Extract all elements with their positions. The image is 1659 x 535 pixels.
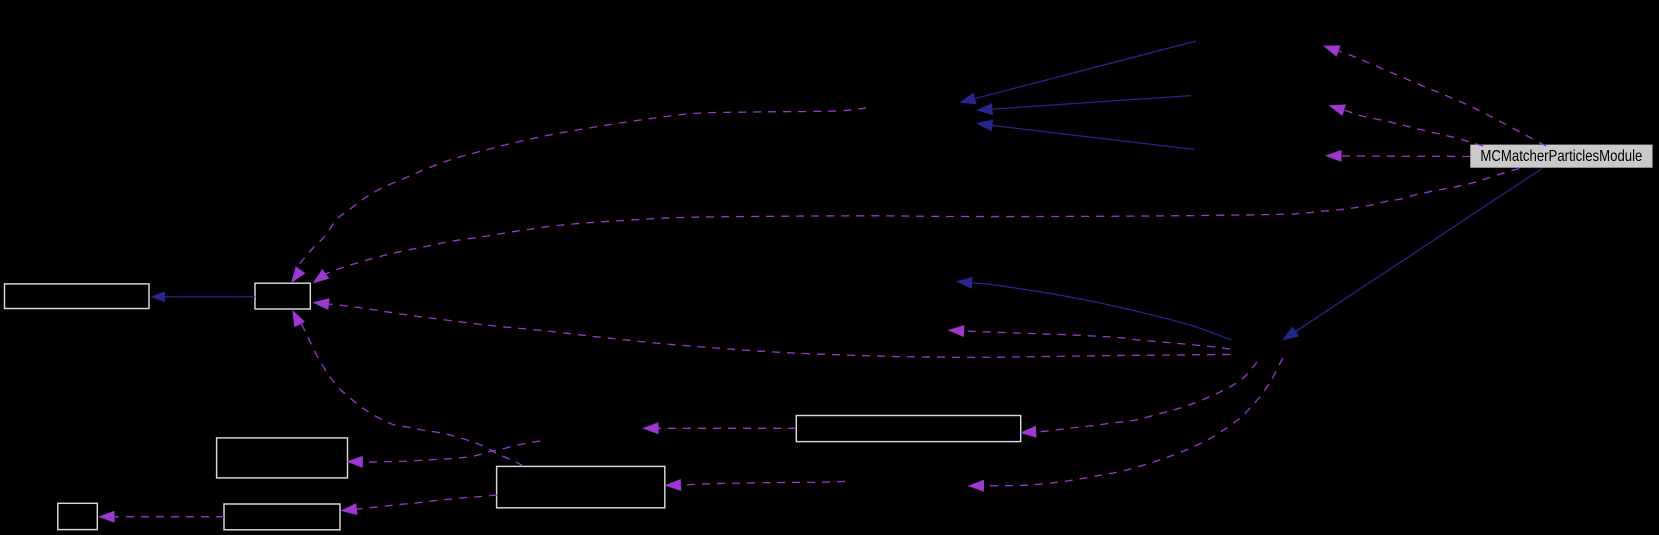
svg-text:MCMatcherParticlesModule: MCMatcherParticlesModule: [1480, 148, 1642, 165]
